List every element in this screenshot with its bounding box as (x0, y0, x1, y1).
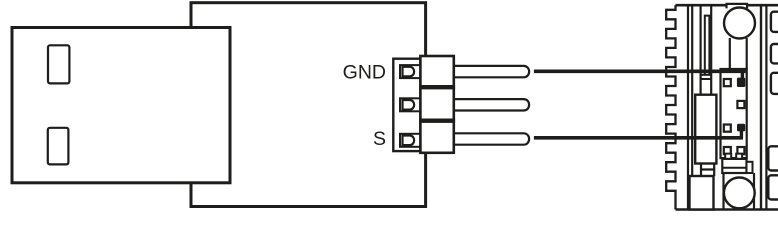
hub column left (729, 38, 731, 69)
header housing (420, 56, 453, 153)
wire W1 drop to pad (741, 71, 744, 80)
socket slot 2 (400, 98, 420, 111)
shaft collar line 1 (701, 74, 712, 76)
crimp contact 3 (403, 136, 415, 146)
bottom plug divider (722, 167, 746, 169)
wire W1 GND (534, 69, 746, 73)
terminal pad D left (724, 147, 731, 154)
bottom plug prong 1 (725, 154, 731, 159)
bottom plug side box (747, 162, 753, 173)
header pin 3 (452, 133, 529, 144)
bottom hub right wall (753, 173, 755, 210)
castellated blade edge (666, 5, 675, 209)
crimp contact 2 (403, 100, 415, 110)
terminal pad C right (S, filled) (737, 124, 745, 132)
bottom plug prong 2 (736, 154, 742, 159)
housing divider 2 (419, 119, 455, 123)
housing divider 1 (419, 85, 455, 89)
top hub circle (724, 8, 755, 39)
terminal block (721, 69, 747, 158)
wire W3 S (534, 136, 743, 140)
mounting tab 2 (771, 44, 778, 63)
shaft collar line 2 (701, 78, 712, 80)
terminal pad A left (724, 79, 731, 86)
wire W3 rise to pad (740, 129, 743, 138)
bottom hub left wall (722, 173, 724, 210)
header pin 1 (452, 66, 529, 77)
hub column right (746, 38, 748, 69)
fan frame bottom edge (676, 208, 778, 211)
motor shaft column left (699, 5, 701, 95)
bottom hub circle (724, 178, 755, 209)
terminal pad C left (724, 125, 731, 132)
terminal pad A right (GND, filled) (737, 78, 745, 87)
motor bottom cap (690, 176, 714, 210)
motor body (695, 95, 716, 164)
socket slot 1 (400, 65, 420, 78)
socket strip (crimp housing) (393, 59, 420, 151)
USB adapter body (191, 3, 426, 207)
mount strip rail (765, 5, 767, 209)
USB contact window 1 (48, 45, 69, 83)
terminal pad B right (737, 101, 744, 108)
motor lower neck (701, 164, 714, 177)
USB plug shell (12, 28, 230, 183)
mounting tab 3 (771, 73, 778, 94)
motor shaft column right (710, 5, 712, 95)
frame plate line a (687, 5, 689, 209)
mounting tab 4 (768, 146, 778, 170)
mounting tab 5 (768, 175, 778, 199)
USB contact window 2 (48, 128, 69, 165)
frame plate line b (691, 5, 693, 209)
svg-text:GND: GND (343, 62, 386, 84)
frame right rail (760, 5, 762, 209)
socket slot 3 (400, 134, 420, 147)
crimp contact 1 (403, 67, 415, 77)
terminal pad D right (737, 147, 744, 154)
fan frame top edge (676, 4, 778, 7)
mounting tab 1 (771, 12, 778, 32)
motor shaft rod (705, 16, 710, 75)
header pin 2 (452, 99, 529, 110)
bottom plug body (722, 159, 746, 173)
svg-text:S: S (373, 128, 386, 150)
hub top tab (727, 4, 748, 8)
